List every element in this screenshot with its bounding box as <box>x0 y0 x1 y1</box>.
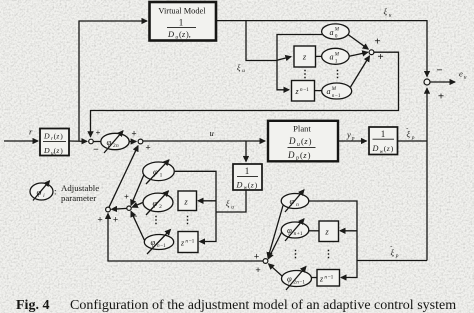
svg-text:−1: −1 <box>335 93 341 99</box>
svg-text:⋮: ⋮ <box>300 69 310 80</box>
svg-text:⋮: ⋮ <box>291 249 301 260</box>
svg-text:u: u <box>175 35 178 41</box>
svg-text:p: p <box>295 156 299 162</box>
svg-text:+: + <box>113 215 118 225</box>
svg-text:z: z <box>250 181 254 190</box>
svg-text:ξ: ξ <box>237 63 241 72</box>
svg-text:Configuration of the adjustmen: Configuration of the adjustment model of… <box>70 298 456 313</box>
svg-text:z: z <box>302 52 307 62</box>
svg-text:M: M <box>334 51 340 57</box>
svg-text:1: 1 <box>335 58 338 64</box>
svg-text:+: + <box>96 127 101 137</box>
svg-text:+: + <box>377 51 383 63</box>
svg-text:z: z <box>324 226 329 236</box>
svg-text:ξ: ξ <box>226 200 230 209</box>
svg-text:⋮: ⋮ <box>151 215 161 226</box>
svg-text:z: z <box>386 144 390 153</box>
svg-text:D: D <box>167 30 174 39</box>
svg-text:D: D <box>372 144 379 153</box>
svg-text:−: − <box>132 211 137 221</box>
svg-text:a: a <box>327 87 331 96</box>
svg-text:−1: −1 <box>189 238 195 244</box>
svg-text:u: u <box>231 204 234 210</box>
svg-text:ξ: ξ <box>384 8 388 17</box>
svg-text:1: 1 <box>160 173 163 179</box>
svg-text:u: u <box>389 12 392 18</box>
svg-text::: : <box>54 186 57 196</box>
svg-text:M: M <box>334 27 340 33</box>
svg-text:−1: −1 <box>299 280 305 286</box>
svg-text:): ) <box>308 150 311 160</box>
svg-text:y: y <box>346 129 351 139</box>
svg-text:φ: φ <box>287 274 292 284</box>
svg-text:): ) <box>309 136 312 146</box>
svg-text:Plant: Plant <box>293 123 311 133</box>
svg-text:1: 1 <box>381 129 386 139</box>
svg-text:D: D <box>43 132 50 141</box>
svg-text:⋮: ⋮ <box>183 215 193 226</box>
svg-text:φ: φ <box>37 187 42 197</box>
svg-text:+: + <box>254 251 260 262</box>
svg-text:z: z <box>55 132 59 141</box>
svg-text:+1: +1 <box>297 231 303 237</box>
svg-text:+: + <box>97 215 102 225</box>
svg-text:p: p <box>351 135 355 141</box>
svg-text:ˆ: ˆ <box>390 247 392 253</box>
svg-text:D: D <box>43 146 50 155</box>
svg-text:parameter: parameter <box>61 193 96 203</box>
svg-text:0: 0 <box>335 34 338 40</box>
svg-text:z: z <box>183 196 188 206</box>
svg-text:n: n <box>296 202 299 208</box>
svg-text:a: a <box>330 53 334 62</box>
svg-text:Fig. 4: Fig. 4 <box>16 298 49 313</box>
svg-text:Virtual Model: Virtual Model <box>158 7 206 16</box>
svg-text:): ) <box>391 144 394 153</box>
svg-text:Adjustable: Adjustable <box>61 183 99 193</box>
svg-text:+: + <box>374 36 380 48</box>
svg-text:⋮: ⋮ <box>333 69 343 80</box>
svg-text:φ: φ <box>153 167 158 177</box>
svg-text:−: − <box>436 64 442 76</box>
svg-text:2: 2 <box>159 204 162 210</box>
svg-text:1: 1 <box>245 166 250 176</box>
svg-text:n: n <box>116 143 119 149</box>
svg-text:−: − <box>93 145 99 156</box>
svg-text:p: p <box>411 135 415 141</box>
svg-text:),: ), <box>186 30 191 39</box>
svg-text:D: D <box>288 136 296 146</box>
svg-text:+: + <box>438 90 444 102</box>
svg-text:u: u <box>210 128 214 138</box>
svg-text:e: e <box>459 69 463 79</box>
svg-text:φ: φ <box>287 225 292 235</box>
svg-text:−1: −1 <box>328 274 334 280</box>
svg-text:φ: φ <box>107 137 112 147</box>
svg-text:1: 1 <box>179 17 184 27</box>
svg-text:φ: φ <box>153 198 158 208</box>
svg-text:φ: φ <box>290 196 295 206</box>
svg-text:−1: −1 <box>160 243 166 249</box>
svg-text:D: D <box>287 150 295 160</box>
svg-text:⋮: ⋮ <box>324 249 334 260</box>
svg-text:p: p <box>395 253 399 259</box>
svg-text:+: + <box>131 129 136 139</box>
svg-text:−1: −1 <box>303 87 309 93</box>
svg-text:φ: φ <box>151 237 156 247</box>
svg-text:+: + <box>124 191 129 201</box>
svg-text:u: u <box>242 68 245 74</box>
svg-text:ˆ: ˆ <box>406 128 408 134</box>
svg-text:D: D <box>236 181 243 190</box>
svg-text:+: + <box>255 265 261 276</box>
svg-text:): ) <box>255 181 258 190</box>
svg-text:a: a <box>330 28 334 37</box>
svg-text:z: z <box>55 146 59 155</box>
svg-text:u: u <box>464 75 467 81</box>
svg-text:+: + <box>145 144 150 154</box>
svg-text:M: M <box>331 86 337 92</box>
